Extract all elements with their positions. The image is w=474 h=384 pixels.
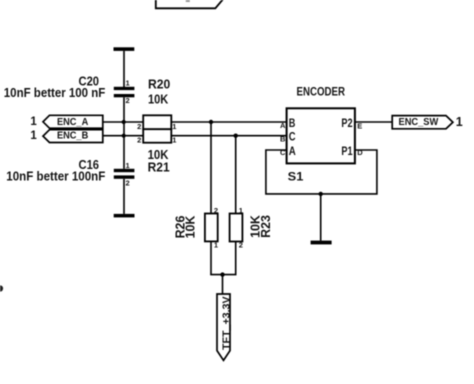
svg-text:C: C [280,148,286,157]
svg-text:A: A [280,121,286,130]
svg-text:ENC_A: ENC_A [57,116,89,128]
svg-text:1: 1 [30,130,37,142]
svg-text:ENCODER: ENCODER [297,85,346,99]
svg-text:2: 2 [126,179,130,188]
svg-text:P1: P1 [341,144,352,158]
svg-text:1: 1 [172,135,176,144]
svg-text:ENC_B: ENC_B [57,130,89,142]
svg-text:1: 1 [239,206,243,215]
svg-text:R21: R21 [148,161,170,175]
svg-text:10nF better 100 nF: 10nF better 100 nF [4,86,106,100]
svg-text:1: 1 [214,240,218,249]
svg-text:B: B [280,134,286,143]
svg-text:10K: 10K [148,93,168,107]
svg-text:2: 2 [214,206,218,215]
svg-text:1: 1 [172,122,176,131]
svg-text:1: 1 [126,161,130,170]
svg-text:1: 1 [126,78,130,87]
svg-text:TFT_+3.3V: TFT_+3.3V [222,296,233,350]
svg-text:B: B [289,116,296,130]
svg-text:R23: R23 [259,215,273,238]
svg-text:2: 2 [137,122,141,131]
svg-text:E: E [357,121,362,130]
svg-text:2: 2 [239,240,243,249]
svg-text:C: C [289,130,296,144]
svg-text:D: D [357,148,363,157]
svg-text:ENC_SW: ENC_SW [399,116,439,128]
svg-text:10nF better 100nF: 10nF better 100nF [6,170,105,184]
svg-text:A: A [289,144,296,158]
svg-text:10K: 10K [184,216,198,239]
svg-text:1: 1 [456,115,463,129]
svg-text:1: 1 [30,116,37,128]
svg-text:2: 2 [126,96,130,105]
svg-text:2: 2 [137,135,141,144]
svg-text:R20: R20 [148,78,170,92]
svg-text:S1: S1 [288,170,304,184]
svg-text:P2: P2 [341,116,352,130]
